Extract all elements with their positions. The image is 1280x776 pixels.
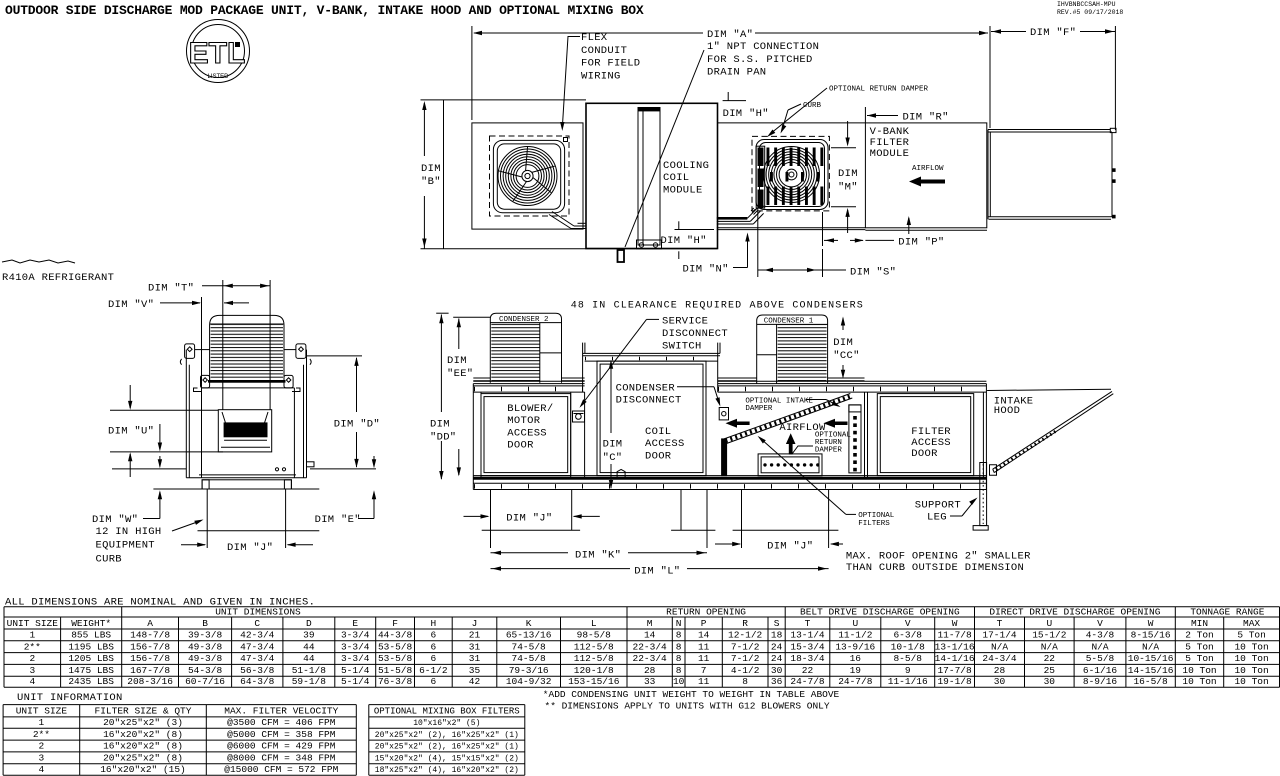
main dimension table: [4, 606, 1280, 608]
svg-text:18-3/4: 18-3/4: [790, 653, 825, 664]
svg-text:CURB: CURB: [803, 102, 822, 110]
return damper rack: [758, 454, 822, 476]
mixing box (plan): [988, 129, 1111, 131]
lower lifting lug right: [284, 375, 293, 388]
svg-text:AIRFLOW: AIRFLOW: [912, 165, 944, 173]
side view base band: [473, 475, 986, 477]
svg-text:E: E: [352, 618, 358, 629]
svg-text:64-3/8: 64-3/8: [240, 676, 275, 687]
svg-text:S: S: [774, 618, 780, 629]
svg-text:167-7/8: 167-7/8: [130, 665, 170, 676]
svg-text:CONDENSER 2: CONDENSER 2: [499, 316, 549, 324]
svg-text:LISTED: LISTED: [207, 74, 229, 80]
svg-text:56-3/8: 56-3/8: [240, 665, 275, 676]
svg-text:8: 8: [742, 676, 748, 687]
svg-text:6: 6: [430, 653, 436, 664]
svg-text:CONDENSER 1: CONDENSER 1: [764, 318, 814, 326]
svg-text:8: 8: [676, 641, 682, 652]
svg-text:DISCONNECT: DISCONNECT: [662, 328, 728, 340]
svg-text:47-3/4: 47-3/4: [240, 641, 275, 652]
svg-text:24: 24: [771, 653, 783, 664]
svg-text:3-3/4: 3-3/4: [341, 653, 370, 664]
svg-text:FLEX: FLEX: [581, 32, 608, 44]
svg-text:11: 11: [698, 676, 710, 687]
svg-text:SERVICE: SERVICE: [662, 315, 708, 327]
svg-text:65-13/16: 65-13/16: [506, 630, 552, 641]
svg-text:COOLING: COOLING: [663, 160, 709, 172]
damper black bar: [722, 439, 727, 476]
small drain stub right: [307, 462, 315, 467]
svg-text:LEG: LEG: [927, 512, 947, 524]
dim A right extension line: [989, 26, 991, 128]
svg-text:2**: 2**: [33, 729, 50, 740]
svg-text:RETURN OPENING: RETURN OPENING: [666, 606, 746, 617]
svg-text:UNIT DIMENSIONS: UNIT DIMENSIONS: [215, 606, 301, 617]
mid section bottom channel: [717, 217, 748, 220]
svg-text:74-5/8: 74-5/8: [512, 641, 547, 652]
svg-text:20"x25"x2" (8): 20"x25"x2" (8): [103, 753, 183, 764]
equipment curb walls: [206, 489, 208, 548]
svg-text:8-9/16: 8-9/16: [1083, 676, 1118, 687]
svg-text:7: 7: [701, 665, 707, 676]
svg-text:54-3/8: 54-3/8: [188, 665, 223, 676]
discharge opening lower flange: [224, 439, 267, 441]
flex conduit leader: [562, 37, 580, 129]
svg-text:112-5/8: 112-5/8: [574, 641, 614, 652]
leg middle pair: [680, 490, 682, 531]
svg-text:4-3/8: 4-3/8: [1086, 630, 1115, 641]
intake damper diagonal: [724, 394, 850, 439]
svg-text:DIM "W": DIM "W": [92, 514, 138, 526]
svg-text:44-3/8: 44-3/8: [378, 630, 413, 641]
svg-text:UNIT SIZE: UNIT SIZE: [16, 706, 68, 717]
unit outline left section top: [421, 99, 587, 101]
svg-text:5-1/4: 5-1/4: [341, 676, 370, 687]
svg-text:WEIGHT*: WEIGHT*: [71, 618, 111, 629]
svg-text:1205 LBS: 1205 LBS: [68, 653, 114, 664]
side view right wall: [985, 384, 987, 490]
svg-text:49-3/8: 49-3/8: [188, 641, 223, 652]
svg-text:@3500 CFM = 406 FPM: @3500 CFM = 406 FPM: [227, 717, 336, 728]
ETL listed logo: [187, 20, 250, 83]
svg-text:R: R: [742, 618, 748, 629]
svg-text:5 Ton: 5 Ton: [1237, 630, 1266, 641]
svg-text:11-1/16: 11-1/16: [888, 676, 928, 687]
svg-text:V: V: [1097, 618, 1103, 629]
airflow arrow plan: [909, 177, 945, 187]
lug connect lines: [195, 349, 210, 351]
svg-text:SWITCH: SWITCH: [662, 341, 702, 353]
svg-text:47-3/4: 47-3/4: [240, 653, 275, 664]
svg-text:DIM "J": DIM "J": [506, 513, 552, 525]
dim P: [822, 212, 824, 246]
svg-text:THAN CURB OUTSIDE DIMENSION: THAN CURB OUTSIDE DIMENSION: [846, 562, 1024, 574]
svg-text:21: 21: [469, 630, 481, 641]
svg-text:60-7/16: 60-7/16: [185, 676, 225, 687]
svg-text:11-7/8: 11-7/8: [937, 630, 972, 641]
svg-text:25: 25: [1044, 665, 1056, 676]
svg-text:22: 22: [1044, 653, 1056, 664]
coil base thick line: [208, 380, 286, 383]
dim C flag: [617, 469, 625, 478]
svg-text:8: 8: [676, 665, 682, 676]
fan orifice rounded square: [493, 140, 564, 212]
svg-text:** DIMENSIONS APPLY TO UNITS W: ** DIMENSIONS APPLY TO UNITS WITH G12 BL…: [545, 700, 830, 711]
condenser 2 rail: [473, 377, 490, 379]
svg-text:24-3/4: 24-3/4: [982, 653, 1017, 664]
svg-text:DIM "J": DIM "J": [227, 542, 273, 554]
gap column and disconnect switch: [570, 392, 572, 478]
dim A dimension line: [474, 32, 703, 34]
svg-text:W: W: [952, 618, 958, 629]
dim F dimension: [991, 31, 1026, 33]
vbank fan square: [756, 140, 828, 210]
svg-text:153-15/16: 153-15/16: [568, 676, 620, 687]
svg-text:SUPPORT: SUPPORT: [915, 500, 961, 512]
svg-text:6-1/16: 6-1/16: [1083, 665, 1118, 676]
dim S: [757, 208, 759, 277]
svg-text:@8000 CFM = 348 FPM: @8000 CFM = 348 FPM: [227, 753, 336, 764]
end view body: [202, 387, 295, 389]
svg-text:C: C: [254, 618, 260, 629]
svg-text:208-3/16: 208-3/16: [127, 676, 173, 687]
svg-text:120-1/8: 120-1/8: [574, 665, 614, 676]
svg-text:DIM "L": DIM "L": [634, 565, 680, 577]
svg-text:14-15/16: 14-15/16: [1128, 665, 1174, 676]
svg-text:OPTIONAL: OPTIONAL: [858, 512, 895, 520]
svg-text:P: P: [701, 618, 707, 629]
curb top ground line: [153, 488, 319, 490]
svg-text:14: 14: [698, 630, 710, 641]
condenser coil end view: [210, 315, 284, 382]
svg-text:8: 8: [676, 653, 682, 664]
hood hatch: [996, 431, 1056, 470]
unit roof band: [473, 380, 584, 382]
svg-text:24-7/8: 24-7/8: [838, 676, 873, 687]
end view outer walls: [185, 350, 187, 478]
svg-text:3: 3: [29, 665, 35, 676]
svg-text:12 IN HIGH: 12 IN HIGH: [96, 526, 162, 538]
svg-text:R410A REFRIGERANT: R410A REFRIGERANT: [2, 272, 114, 284]
svg-text:UNIT INFORMATION: UNIT INFORMATION: [17, 692, 123, 704]
condenser 1 rail: [718, 377, 757, 379]
optional mixing box filters table: [369, 704, 525, 706]
svg-text:MAX. FILTER VELOCITY: MAX. FILTER VELOCITY: [224, 706, 338, 717]
svg-text:79-3/16: 79-3/16: [509, 665, 549, 676]
break squiggle: [2, 260, 75, 263]
svg-text:39-3/8: 39-3/8: [188, 630, 223, 641]
svg-text:22: 22: [802, 665, 814, 676]
svg-text:17-1/4: 17-1/4: [982, 630, 1017, 641]
service disconnect leader: [647, 318, 660, 320]
svg-text:COIL: COIL: [663, 172, 689, 184]
svg-text:DIM "J": DIM "J": [767, 541, 813, 553]
svg-text:MIN: MIN: [1191, 618, 1208, 629]
svg-text:156-7/8: 156-7/8: [130, 653, 170, 664]
coil slot bottom detail: [637, 240, 662, 249]
svg-text:2: 2: [39, 741, 45, 752]
svg-text:1" NPT CONNECTION: 1" NPT CONNECTION: [707, 41, 819, 53]
svg-text:N/A: N/A: [1091, 641, 1108, 652]
unit outline left section bottom: [421, 248, 718, 250]
svg-text:11: 11: [698, 641, 710, 652]
end view body bottom: [186, 477, 306, 479]
svg-text:U: U: [852, 618, 858, 629]
svg-text:16"x20"x2" (8): 16"x20"x2" (8): [103, 741, 183, 752]
svg-text:10 Ton: 10 Ton: [1234, 653, 1268, 664]
dim B: [423, 103, 425, 156]
svg-text:5 Ton: 5 Ton: [1185, 653, 1214, 664]
svg-text:4-1/2: 4-1/2: [731, 665, 760, 676]
vbank curb dashed rect: [752, 136, 829, 211]
svg-text:N/A: N/A: [1041, 641, 1058, 652]
svg-text:148-7/8: 148-7/8: [130, 630, 170, 641]
leg left pair: [490, 490, 492, 549]
optional filters leader: [760, 438, 846, 514]
svg-text:DIRECT DRIVE DISCHARGE OPENING: DIRECT DRIVE DISCHARGE OPENING: [989, 606, 1160, 617]
svg-text:CONDUIT: CONDUIT: [581, 45, 627, 57]
svg-text:10 Ton: 10 Ton: [1234, 665, 1268, 676]
svg-text:2435 LBS: 2435 LBS: [68, 676, 114, 687]
svg-text:FILTERS: FILTERS: [858, 520, 890, 528]
svg-text:17-7/8: 17-7/8: [937, 665, 972, 676]
svg-text:10"x16"x2" (5): 10"x16"x2" (5): [413, 719, 480, 728]
svg-text:74-5/8: 74-5/8: [512, 653, 547, 664]
svg-text:EQUIPMENT: EQUIPMENT: [96, 540, 155, 552]
svg-text:44: 44: [303, 653, 315, 664]
svg-text:49-3/8: 49-3/8: [188, 653, 223, 664]
svg-text:DOOR: DOOR: [645, 450, 672, 462]
svg-text:COIL: COIL: [645, 426, 671, 438]
svg-text:2**: 2**: [24, 641, 41, 652]
svg-text:1: 1: [39, 717, 45, 728]
svg-text:ACCESS: ACCESS: [645, 438, 685, 450]
svg-text:DOOR: DOOR: [911, 448, 938, 460]
svg-text:19: 19: [850, 665, 862, 676]
svg-text:DIM "F": DIM "F": [1030, 27, 1076, 39]
svg-text:76-3/8: 76-3/8: [378, 676, 413, 687]
right section interior left switch: [719, 408, 728, 420]
svg-text:BLOWER/: BLOWER/: [507, 403, 553, 415]
svg-text:FILTER SIZE & QTY: FILTER SIZE & QTY: [95, 706, 192, 717]
discharge opening inner black: [224, 423, 267, 437]
svg-text:1: 1: [29, 630, 35, 641]
svg-text:42-3/4: 42-3/4: [240, 630, 275, 641]
svg-text:DIM: DIM: [833, 337, 853, 349]
svg-text:A: A: [147, 618, 153, 629]
svg-text:31: 31: [469, 641, 481, 652]
svg-text:N/A: N/A: [991, 641, 1008, 652]
svg-text:10 Ton: 10 Ton: [1182, 676, 1216, 687]
svg-text:T: T: [805, 618, 811, 629]
svg-text:DIM "A": DIM "A": [707, 29, 753, 41]
svg-text:V: V: [905, 618, 911, 629]
svg-text:51-1/8: 51-1/8: [292, 665, 327, 676]
dim M extension lines: [831, 147, 856, 149]
svg-text:IHVBNBCCSAH-MPU: IHVBNBCCSAH-MPU: [1057, 1, 1116, 8]
dim H lower callout: [675, 229, 715, 231]
svg-text:F: F: [392, 618, 398, 629]
coil slot top thick bar: [638, 108, 660, 111]
svg-text:MODULE: MODULE: [870, 148, 910, 160]
svg-text:3-3/4: 3-3/4: [341, 641, 370, 652]
svg-text:CURB: CURB: [96, 553, 122, 565]
svg-text:DIM: DIM: [838, 168, 858, 180]
unit information table: [3, 704, 356, 706]
svg-text:DIM "R": DIM "R": [903, 112, 949, 124]
svg-text:44: 44: [303, 641, 315, 652]
dim V extension line: [201, 297, 203, 388]
svg-text:9: 9: [905, 665, 911, 676]
svg-text:"B": "B": [421, 176, 441, 188]
svg-text:DOOR: DOOR: [507, 440, 534, 452]
mixing box right connector marks: [1112, 168, 1116, 172]
svg-text:DRAIN PAN: DRAIN PAN: [707, 67, 766, 79]
filter access door: [877, 394, 973, 476]
vbank wall: [864, 392, 866, 478]
svg-text:3-3/4: 3-3/4: [341, 630, 370, 641]
svg-text:16"x20"x2" (8): 16"x20"x2" (8): [103, 729, 183, 740]
svg-text:30: 30: [994, 676, 1006, 687]
svg-text:DIM "N": DIM "N": [683, 264, 729, 276]
svg-text:33: 33: [644, 676, 656, 687]
svg-text:156-7/8: 156-7/8: [130, 641, 170, 652]
svg-text:WIRING: WIRING: [581, 70, 621, 82]
svg-text:"C": "C": [603, 452, 623, 464]
cooling coil module box (plan): [586, 103, 718, 248]
svg-text:@15000 CFM = 572 FPM: @15000 CFM = 572 FPM: [224, 764, 338, 775]
svg-text:6: 6: [430, 630, 436, 641]
svg-text:48 IN CLEARANCE REQUIRED ABOVE: 48 IN CLEARANCE REQUIRED ABOVE CONDENSER…: [571, 301, 864, 312]
condenser 1 side view: [757, 315, 828, 384]
dim U arrows: [129, 385, 131, 408]
dim L: [491, 568, 631, 570]
svg-text:DIM "E": DIM "E": [315, 514, 361, 526]
svg-text:OPTIONAL RETURN DAMPER: OPTIONAL RETURN DAMPER: [829, 86, 929, 94]
svg-text:6-1/2: 6-1/2: [419, 665, 448, 676]
svg-text:H: H: [430, 618, 436, 629]
svg-text:"EE": "EE": [447, 368, 473, 380]
floor ext line left: [112, 468, 186, 470]
svg-text:18: 18: [771, 630, 783, 641]
svg-text:@5000 CFM = 358 FPM: @5000 CFM = 358 FPM: [227, 729, 336, 740]
svg-text:DAMPER: DAMPER: [745, 405, 773, 413]
svg-text:MODULE: MODULE: [663, 184, 703, 196]
upper lifting lug right: [296, 344, 306, 359]
condenser fan 2 rings: [764, 147, 820, 203]
svg-text:OUTDOOR SIDE DISCHARGE MOD: OUTDOOR SIDE DISCHARGE MOD PACKAGE UNIT,…: [5, 3, 644, 18]
coil access door: [597, 361, 706, 476]
dim M arrows: [847, 121, 849, 144]
svg-text:31: 31: [469, 653, 481, 664]
svg-text:N/A: N/A: [1142, 641, 1159, 652]
condenser disconnect leader: [677, 386, 714, 388]
svg-text:6: 6: [430, 641, 436, 652]
svg-text:24-7/8: 24-7/8: [790, 676, 825, 687]
svg-text:ACCESS: ACCESS: [507, 427, 547, 439]
airflow left arrow: [823, 419, 847, 428]
flex conduit target diamond: [564, 138, 568, 142]
svg-text:2 Ton: 2 Ton: [1185, 630, 1214, 641]
svg-text:8: 8: [676, 630, 682, 641]
svg-text:DIM "D": DIM "D": [334, 419, 380, 431]
svg-text:10 Ton: 10 Ton: [1182, 665, 1216, 676]
corner hatch ticks: [752, 209, 756, 213]
svg-text:FOR FIELD: FOR FIELD: [581, 58, 640, 70]
svg-text:13-9/16: 13-9/16: [835, 641, 875, 652]
svg-text:51-5/8: 51-5/8: [378, 665, 413, 676]
dim H upper callout: [723, 100, 746, 102]
vbank filter strip side: [849, 405, 861, 473]
svg-text:22-3/4: 22-3/4: [633, 653, 668, 664]
svg-text:20"x25"x2" (2), 16"x25"x2" (1): 20"x25"x2" (2), 16"x25"x2" (1): [375, 743, 519, 752]
dim T extension lines: [222, 280, 224, 410]
svg-text:16: 16: [850, 653, 862, 664]
svg-text:1195 LBS: 1195 LBS: [68, 641, 114, 652]
svg-text:7-1/2: 7-1/2: [731, 641, 760, 652]
svg-text:DIM "T": DIM "T": [148, 283, 194, 295]
svg-text:12-1/2: 12-1/2: [728, 630, 763, 641]
svg-text:2: 2: [29, 653, 35, 664]
svg-text:DIM "P": DIM "P": [898, 237, 944, 249]
svg-text:20"x25"x2" (2), 16"x25"x2" (1): 20"x25"x2" (2), 16"x25"x2" (1): [375, 731, 519, 740]
svg-text:98-5/8: 98-5/8: [577, 630, 612, 641]
svg-text:5 Ton: 5 Ton: [1185, 641, 1214, 652]
base frame below body: [202, 480, 291, 489]
svg-text:30: 30: [1044, 676, 1056, 687]
svg-text:@6000 CFM = 429 FPM: @6000 CFM = 429 FPM: [227, 741, 336, 752]
hood end cap: [990, 465, 997, 476]
svg-text:*ADD CONDENSING UNIT WEIGHT TO: *ADD CONDENSING UNIT WEIGHT TO WEIGHT IN…: [543, 689, 840, 700]
condenser 1 module box (plan): [472, 123, 583, 229]
svg-text:10: 10: [673, 676, 685, 687]
svg-text:16-5/8: 16-5/8: [1133, 676, 1168, 687]
svg-text:B: B: [202, 618, 208, 629]
svg-text:J: J: [472, 618, 478, 629]
svg-text:DAMPER: DAMPER: [815, 446, 843, 454]
svg-text:36: 36: [771, 676, 783, 687]
svg-text:4: 4: [29, 676, 35, 687]
svg-text:14-1/16: 14-1/16: [935, 653, 975, 664]
svg-text:DIM: DIM: [430, 419, 450, 431]
svg-text:N: N: [676, 618, 682, 629]
vbank filter module box: [865, 123, 986, 228]
npt leader line: [625, 50, 704, 247]
dim A left extension line: [471, 26, 473, 120]
fan 1 spokes: [533, 177, 551, 192]
coil module raised walls: [582, 343, 584, 393]
airflow up arrow: [786, 433, 796, 454]
svg-text:39: 39: [303, 630, 315, 641]
svg-text:28: 28: [994, 665, 1006, 676]
drain pipe stub: [618, 250, 625, 262]
svg-text:15-1/2: 15-1/2: [1032, 630, 1067, 641]
blower motor access door: [481, 394, 571, 476]
svg-text:HOOD: HOOD: [994, 405, 1020, 417]
svg-text:BELT DRIVE DISCHARGE OPENING: BELT DRIVE DISCHARGE OPENING: [800, 606, 960, 617]
svg-text:ETL: ETL: [189, 37, 246, 70]
svg-text:CONDENSER: CONDENSER: [616, 383, 676, 395]
svg-text:11: 11: [698, 653, 710, 664]
svg-text:13-1/4: 13-1/4: [790, 630, 825, 641]
svg-text:10-15/16: 10-15/16: [1128, 653, 1174, 664]
svg-text:4: 4: [39, 764, 45, 775]
vbank right small arrow: [908, 218, 910, 234]
svg-text:3: 3: [39, 753, 45, 764]
coil slot in plan: [638, 108, 660, 246]
svg-text:855 LBS: 855 LBS: [71, 630, 111, 641]
svg-text:DIM "K": DIM "K": [575, 550, 621, 562]
